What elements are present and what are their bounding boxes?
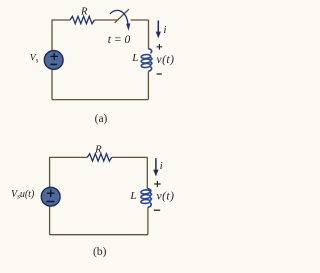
switch closing arrow (blue curved)	[110, 10, 128, 24]
svg-text:i: i	[163, 25, 166, 36]
svg-text:v(t): v(t)	[157, 54, 175, 66]
wire: (a) left vertical below source to bottom-left corner	[51, 70, 53, 100]
wire: (b) right vertical below inductor	[147, 207, 149, 234]
wire: (a) right vertical below inductor	[147, 71, 149, 99]
plus sign of v(t) (a)	[157, 44, 163, 50]
switch arrow head	[126, 23, 130, 31]
svg-text:i: i	[160, 161, 163, 172]
wire: (b) top-left segment from source to resistor	[50, 157, 88, 187]
inductor L (b) coil	[141, 189, 152, 208]
svg-text:R: R	[94, 145, 102, 156]
svg-text:t = 0: t = 0	[108, 34, 131, 46]
inductor L (a) coil	[141, 49, 152, 72]
svg-text:(b): (b)	[93, 246, 107, 258]
minus sign inside source (a)	[50, 63, 57, 65]
resistor R (b) zigzag	[87, 154, 111, 161]
wire: (a) top-right segment from switch contact to corner	[131, 19, 149, 21]
voltage source Vs u(t) (b) circle	[41, 187, 60, 206]
svg-text:L: L	[129, 190, 136, 202]
minus sign inside source (b)	[46, 201, 54, 203]
resistor R (a) zigzag	[70, 16, 94, 23]
wire: (a) right vertical above inductor	[148, 20, 150, 49]
wire: (b) bottom wire	[50, 234, 148, 236]
plus sign inside source (a)	[50, 53, 58, 60]
wire: (a) bottom wire	[52, 99, 148, 101]
plus sign of v(t) (b)	[154, 181, 160, 187]
svg-text:R: R	[80, 6, 88, 17]
switch SW1 blade (open, t=0)	[115, 9, 129, 23]
svg-text:(a): (a)	[95, 113, 108, 125]
wire: (b) left vertical below source	[49, 206, 51, 234]
wire: (b) top-right segment from resistor to corner	[112, 156, 148, 158]
minus sign of v(t) (b)	[154, 209, 160, 211]
plus sign inside source (b)	[47, 189, 55, 197]
wire: (a) top middle segment from resistor to switch pivot	[94, 19, 117, 21]
svg-text:v(t): v(t)	[157, 191, 175, 203]
wire: (b) right vertical above inductor	[146, 157, 148, 188]
current arrow i (a)	[157, 20, 159, 32]
voltage source Vs (a) circle	[44, 51, 63, 70]
svg-text:L: L	[131, 52, 138, 64]
svg-text:Vsu(t): Vsu(t)	[11, 189, 35, 201]
svg-text:Vs: Vs	[30, 53, 39, 65]
minus sign of v(t) (a)	[157, 73, 162, 75]
wire: (a) top-left segment from node to resistor	[52, 20, 70, 51]
current arrow i (b)	[155, 158, 157, 170]
